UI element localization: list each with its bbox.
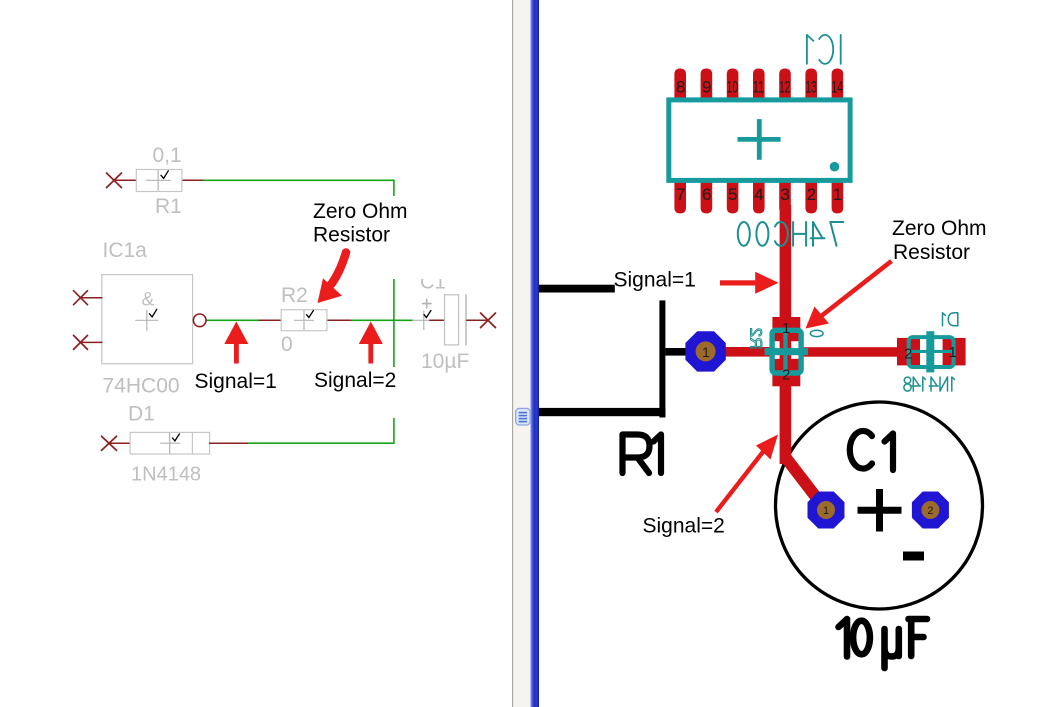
svg-text:Zero Ohm: Zero Ohm [313,200,408,223]
white box behind Zero Ohm label left [309,196,450,279]
wire gate input 2 lead [81,341,102,343]
svg-text:1: 1 [823,505,829,517]
PCB-RIGHT [539,35,983,668]
svg-text:13: 13 [805,78,817,97]
capacitor C1 right plate [465,295,467,345]
capacitor C1 polarity plus [423,299,432,308]
red up arrow Signal=2 left [359,322,383,364]
svg-text:2: 2 [782,367,790,384]
label C1 big stroke text [850,431,893,470]
svg-text:Signal=1: Signal=1 [614,269,696,292]
wire gate input 1 lead [81,297,102,299]
IC1 silk center cross [738,119,781,160]
IC1 silk pin1 dot [830,162,840,172]
R2 silk center vertical bar [783,330,787,374]
C1 pad 2 blue octagon [912,492,949,529]
svg-text:&: & [142,290,155,311]
R2 silk frame [772,330,801,373]
trace octagon pad to R2 footprint [705,347,773,357]
svg-text:7: 7 [676,185,685,204]
SCHEMATIC-LEFT [74,144,496,486]
red diagonal arrow Signal=2 right [716,435,778,513]
D1 left pad [897,338,920,366]
svg-text:1N4148: 1N4148 [131,464,201,486]
wire R1 left pin lead [114,179,136,181]
net wire green R1 output horizontal [202,179,394,181]
wire C1 right pin lead [467,319,488,321]
unconnected pin marker X D1 left [102,436,117,450]
label R1 big stroke text [623,435,662,474]
capacitor C1 check mark [424,311,431,318]
D1 silk frame [909,337,954,367]
D1 right pad [943,338,966,366]
svg-text:1: 1 [782,320,790,337]
svg-text:2: 2 [927,505,933,517]
red curved arrow Zero Ohm left [318,253,347,304]
black pointer bracket vertical segment [659,300,665,417]
op-amp gate IC1a body (NAND) [102,275,193,364]
svg-text:1: 1 [833,185,842,204]
svg-text:74HC00: 74HC00 [103,375,180,398]
net wire green R2 to C1 [351,319,413,321]
svg-text:Resistor: Resistor [313,224,390,247]
wire D1 left pin lead [109,442,130,444]
scrollbar strip edge line [512,0,513,707]
splitter handle button [516,408,530,425]
svg-text:Zero Ohm: Zero Ohm [892,217,987,240]
label 1N4148 mirrored silk [904,377,955,391]
resistor R1 body [136,170,182,192]
wire R1 right pin lead [182,179,203,181]
svg-text:Signal=2: Signal=2 [643,515,725,538]
svg-text:12: 12 [779,78,791,97]
label 10uF big stroke text [839,619,928,668]
capacitor C1 origin cross [413,311,430,330]
blue splitter bar [530,0,539,707]
R2 SMD pads red block [772,317,800,341]
svg-text:0,1: 0,1 [153,144,182,167]
red right arrow Signal=1 right [720,272,779,294]
C1 silk plus [858,489,902,532]
black pointer bracket bottom segment [539,408,665,416]
C1 footprint outline circle [776,402,983,609]
net wire green gate output to R2 [206,319,259,321]
IC1 pin numbers bottom row [676,185,842,204]
DIVIDER [512,0,539,707]
svg-text:1: 1 [702,344,710,360]
wire R2 left pin lead [259,319,281,321]
wire C1 left pin lead [430,319,445,321]
unconnected pin marker X C1 right [481,313,496,328]
R2 silk center horizontal bar [765,348,808,355]
svg-text:8: 8 [676,78,685,97]
IC1 top pads row [674,69,843,103]
wire D1 right pin lead [210,442,247,444]
wire R2 right pin lead [327,319,351,321]
svg-text:IC1a: IC1a [103,239,148,262]
svg-text:2: 2 [807,185,816,204]
R1 pad 1 blue octagon [685,331,725,371]
svg-text:10µF: 10µF [421,350,469,373]
svg-text:6: 6 [702,185,711,204]
gate output inversion bubble [193,314,206,327]
unconnected pin marker X R1 left [107,173,122,188]
red diagonal arrow Zero Ohm right [806,261,892,329]
svg-text:R2: R2 [281,284,308,307]
IC1 package silk rectangle [669,100,850,180]
label 74HC00 mirrored silk [738,222,844,246]
label D1 mirrored silk [943,313,958,326]
svg-text:R1: R1 [155,195,182,218]
IC1 bottom pads row [674,179,843,213]
label IC1 mirrored silk [807,35,841,64]
svg-text:14: 14 [831,78,843,97]
trace R2 footprint to D1 footprint [800,347,898,357]
D1 silk center horizontal line [908,350,954,353]
capacitor C1 left plate [445,295,459,345]
svg-text:9: 9 [702,78,711,97]
IC1 pin numbers top row [676,78,843,97]
net wire green D1 to node [247,442,394,444]
svg-text:1: 1 [949,344,957,361]
svg-text:R2: R2 [747,328,766,350]
svg-text:Signal=2: Signal=2 [314,369,396,392]
unconnected pin marker X gate input 1 [74,291,88,305]
trace pin3 vertical down [780,205,792,464]
svg-text:D1: D1 [128,403,155,426]
white box behind Signal=2 label left [313,367,398,418]
D1 silk center vertical bar [926,331,934,372]
svg-text:3: 3 [780,185,789,204]
black pointer bracket stub to pad [665,348,693,356]
C1 pad 1 blue octagon [808,492,845,529]
svg-text:2: 2 [904,346,912,363]
resistor R2 body [281,310,327,331]
svg-text:11: 11 [753,78,765,97]
C1 silk minus [903,552,924,561]
net wire green vertical bus node [393,180,395,443]
svg-text:4: 4 [754,185,763,204]
trace diagonal into C1 pad 1 [786,458,826,510]
label 0 mirrored silk [810,330,823,336]
svg-text:10: 10 [727,78,739,97]
unconnected pin marker X gate input 2 [74,335,88,349]
svg-text:Resistor: Resistor [893,241,970,264]
black pointer bracket top segment [539,285,615,293]
diode D1 body [130,432,210,454]
svg-text:0: 0 [281,333,293,356]
svg-text:5: 5 [728,185,737,204]
scrollbar strip [513,0,530,707]
svg-text:Signal=1: Signal=1 [195,370,277,393]
red up arrow Signal=1 left [224,322,248,364]
